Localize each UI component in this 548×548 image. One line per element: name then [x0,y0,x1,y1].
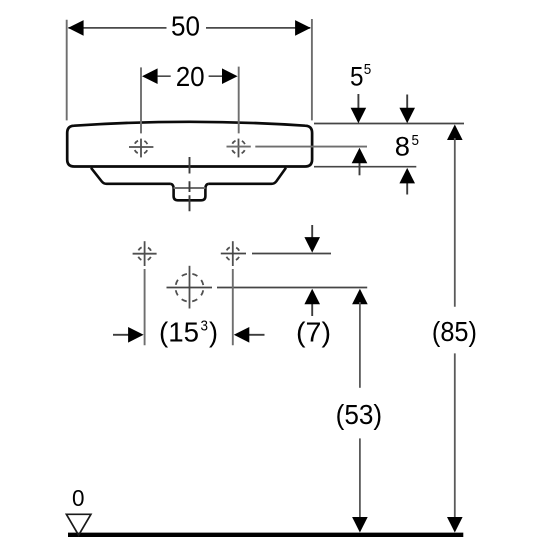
svg-text:(85): (85) [432,316,477,347]
dimension (53): vertical line lower segment [359,438,361,518]
washbasin upper body outline [67,122,312,167]
svg-text:50: 50 [171,11,200,42]
dimension (7): upper (downward) arrow with stem [311,225,313,240]
dimension 20: right extension line (tap axis) [238,67,240,134]
dimension (85): vertical line upper segment [454,138,456,307]
dimension (15^3): right arrow (pointing left) with stem [249,334,265,336]
tap hole right (dashed circle + crosshair) [232,139,246,158]
dimension (85): upward arrow at rim line [447,125,463,141]
dimension (85): downward arrow at ground [447,517,463,533]
dimension 8^5: lower (upward) arrow with stem [406,180,408,195]
dimension (7): lower (upward) arrow with stem [311,300,313,316]
reference line: drain axis horizontal [167,287,368,289]
dimension (53): vertical line upper segment [359,302,361,388]
svg-text:20: 20 [176,61,205,92]
dimension (15^3): left hole axis vertical line [144,269,146,345]
svg-text:3: 3 [201,319,209,335]
svg-text:8: 8 [395,131,410,161]
dimension 5^5: lower (upward) arrow with stem [359,160,361,175]
svg-text:(15: (15 [159,317,199,348]
drain trap circle (dashed) with crosshair [176,266,204,309]
dimension 20: dimension line [158,75,222,77]
dimension (85): vertical line lower segment [454,353,456,518]
svg-text:5: 5 [412,133,420,149]
dimension 50: right arrowhead [295,20,311,36]
tap hole left (dashed circle + crosshair) [129,139,153,158]
dimension (15^3): left arrow (pointing right) with stem [113,334,129,336]
reference line: upper body bottom edge extended right [314,166,416,168]
dimension 5^5: upper (downward) arrow with stem [357,94,359,110]
fixing hole left (dashed circle + crosshair) [133,241,157,266]
dimension (15^3): right hole axis vertical line [232,269,234,345]
drain centerline [189,157,191,211]
svg-text:(53): (53) [336,399,383,430]
dimension 20: left arrowhead [142,68,158,84]
svg-text:5: 5 [364,62,372,78]
datum triangle symbol [66,514,91,535]
dimension 50: right extension line [311,19,313,120]
dimension (53): upward arrow at drain axis [352,289,368,305]
drain outlet cup [170,184,208,201]
reference line: rim top edge extended right [314,123,464,125]
reference line tap-hole axis extending right (5^5 lower reference) [227,146,368,148]
fixing hole right (dashed circle + crosshair) [226,241,240,266]
svg-text:0: 0 [72,485,85,511]
svg-text:5: 5 [350,62,364,92]
dimension 50: left arrowhead [68,20,84,36]
ground line [68,533,463,537]
drain inner edge line [174,187,206,189]
washbasin apron trapezoid [91,168,286,184]
dimension 50: dimension line [68,27,310,29]
svg-text:): ) [209,317,218,348]
dimension 50: left extension line [66,20,68,121]
svg-text:(7): (7) [296,317,331,348]
dimension 20: left extension line (tap axis) [140,67,142,133]
dimension 20: right arrowhead [222,68,238,84]
reference line: fixing hole axis extending right [221,253,331,255]
dimension (53): downward arrow at ground [352,517,368,533]
dimension 8^5: upper (downward) arrow with stem [406,95,408,111]
